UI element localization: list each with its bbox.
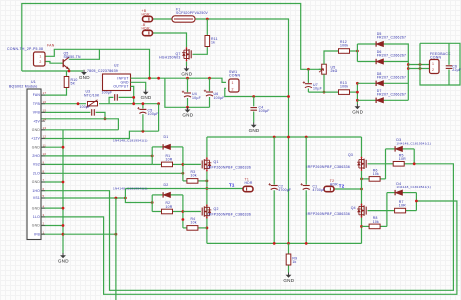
svg-text:HDR: HDR (142, 12, 150, 16)
svg-text:GND: GND (32, 206, 41, 210)
svg-text:100µF: 100µF (259, 109, 270, 113)
svg-text:HDR: HDR (245, 181, 253, 185)
svg-text:IRFP260NPBF_C386336: IRFP260NPBF_C386336 (208, 165, 251, 169)
svg-text:Q2: Q2 (214, 207, 219, 211)
svg-text:10k: 10k (373, 220, 379, 224)
svg-text:Q1: Q1 (214, 160, 219, 164)
svg-text:2HO: 2HO (32, 154, 40, 158)
svg-text:1: 1 (232, 81, 234, 85)
svg-text:FR207_C266267: FR207_C266267 (377, 75, 407, 79)
svg-text:VFB: VFB (33, 111, 41, 115)
svg-text:10k: 10k (373, 172, 379, 176)
svg-text:IRFP260NPBF_C386336: IRFP260NPBF_C386336 (307, 212, 350, 216)
svg-text:2: 2 (232, 87, 234, 91)
svg-text:GND: GND (181, 72, 192, 77)
svg-text:10k: 10k (191, 174, 197, 178)
svg-text:VS2: VS2 (33, 163, 40, 167)
svg-text:SCF520PFVA250V: SCF520PFVA250V (176, 11, 209, 15)
svg-text:2LO: 2LO (33, 172, 40, 176)
svg-text:D2: D2 (164, 183, 169, 187)
svg-text:10µF: 10µF (192, 96, 201, 100)
svg-text:22µF: 22µF (452, 68, 461, 72)
svg-text:GND: GND (141, 95, 152, 100)
svg-text:1N4148_C1819541(1): 1N4148_C1819541(1) (113, 139, 148, 143)
svg-text:2: 2 (432, 68, 434, 72)
svg-text:1LO: 1LO (33, 215, 40, 219)
svg-text:FR207_C266267: FR207_C266267 (377, 53, 407, 57)
svg-text:U1: U1 (31, 80, 36, 84)
svg-text:100k: 100k (340, 85, 348, 89)
svg-text:5K: 5K (71, 82, 76, 86)
svg-text:Q3: Q3 (348, 153, 353, 157)
svg-text:1N4148_C1819541(1): 1N4148_C1819541(1) (396, 185, 431, 189)
svg-text:10R: 10R (399, 157, 406, 161)
svg-text:100µF: 100µF (80, 105, 91, 109)
svg-text:4700µF: 4700µF (278, 188, 291, 192)
svg-text:HDR: HDR (142, 26, 150, 30)
svg-text:S8050-TN: S8050-TN (64, 55, 82, 59)
svg-text:FR207_C266267: FR207_C266267 (377, 92, 407, 96)
svg-text:Q4: Q4 (351, 206, 356, 210)
svg-text:NTC/10K: NTC/10K (84, 93, 100, 97)
svg-text:GND: GND (32, 180, 41, 184)
svg-text:FR207_C266267: FR207_C266267 (377, 36, 407, 40)
svg-text:100µF: 100µF (148, 112, 159, 116)
svg-text:CONN: CONN (430, 55, 441, 59)
svg-text:T2: T2 (339, 183, 345, 188)
svg-text:OUTPUT: OUTPUT (113, 85, 128, 89)
svg-text:10R: 10R (399, 204, 406, 208)
svg-text:1N4148_C1819541(1): 1N4148_C1819541(1) (113, 186, 148, 190)
svg-text:10R: 10R (166, 158, 173, 162)
svg-text:HDR: HDR (330, 182, 338, 186)
svg-text:TFB: TFB (33, 102, 41, 106)
svg-text:BQS002 Module: BQS002 Module (9, 85, 38, 89)
svg-text:GND: GND (182, 113, 193, 118)
svg-text:GND: GND (32, 224, 41, 228)
svg-text:VS1: VS1 (33, 196, 40, 200)
svg-text:7805_C22378639: 7805_C22378639 (87, 69, 118, 73)
svg-text:HGH150N03: HGH150N03 (159, 56, 180, 60)
svg-text:D1: D1 (164, 135, 169, 139)
svg-text:100µF: 100µF (214, 96, 225, 100)
svg-text:IRFP260NPBF_C386336: IRFP260NPBF_C386336 (208, 213, 251, 217)
svg-text:2kΩ: 2kΩ (331, 69, 338, 73)
svg-text:FAN: FAN (47, 43, 55, 47)
svg-text:T1: T1 (229, 183, 235, 188)
svg-text:10k: 10k (191, 221, 197, 225)
svg-text:IRFP260NPBF_C386336: IRFP260NPBF_C386336 (307, 165, 350, 169)
svg-text:GND: GND (79, 75, 90, 80)
svg-text:10R: 10R (166, 205, 173, 209)
svg-text:+12V: +12V (31, 137, 40, 141)
svg-text:1k: 1k (211, 41, 215, 45)
svg-text:1HO: 1HO (32, 189, 40, 193)
svg-text:GND: GND (283, 278, 294, 283)
svg-text:2: 2 (39, 60, 41, 64)
svg-text:1N4148_C1819541(1): 1N4148_C1819541(1) (396, 141, 431, 145)
svg-text:U2: U2 (114, 64, 119, 68)
svg-text:+5V: +5V (33, 119, 40, 123)
svg-text:CONN: CONN (229, 74, 240, 78)
svg-text:GND: GND (58, 258, 69, 263)
svg-text:CONN-TH_2P-P5.08: CONN-TH_2P-P5.08 (7, 47, 43, 51)
svg-text:1: 1 (432, 62, 434, 66)
svg-text:GND: GND (249, 128, 260, 133)
svg-text:GND: GND (32, 145, 41, 149)
svg-text:10µF: 10µF (313, 87, 322, 91)
svg-text:FAN: FAN (33, 93, 41, 97)
svg-text:100k: 100k (340, 44, 348, 48)
svg-text:IFB: IFB (34, 232, 40, 236)
svg-text:4700µF: 4700µF (313, 188, 326, 192)
svg-text:1k: 1k (292, 260, 296, 264)
svg-text:GND: GND (352, 109, 363, 114)
svg-text:GND: GND (32, 128, 41, 132)
svg-text:1: 1 (39, 55, 41, 59)
